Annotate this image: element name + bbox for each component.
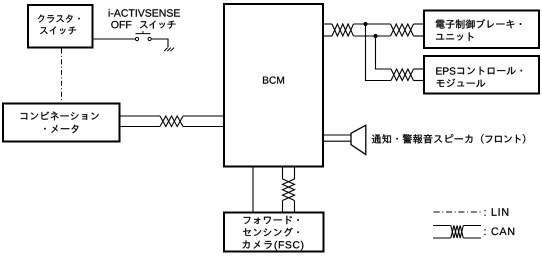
legend label: CAN	[485, 228, 515, 236]
LIN bus wire: cluster switch to combination meter (dash-dot)	[61, 49, 63, 103]
component box: コンビネーション・メータ (combination meter)	[3, 104, 120, 142]
component box: フォワード・センシング・カメラ (FSC)	[224, 213, 324, 252]
CAN bus twisted pair: junction to EPS control module	[366, 24, 424, 81]
legend label: LIN	[485, 208, 509, 215]
label: 通知・警報音スピーカ（フロント）	[372, 134, 525, 143]
switch: i-ACTIVSENSE OFF switch (normally open)	[135, 31, 151, 41]
junction node (lower CAN line)	[373, 34, 377, 38]
CAN bus twisted pair: BCM to forward sensing camera	[283, 168, 295, 212]
component box: 電子制御ブレーキ・ユニット (electric brake control unit)	[424, 11, 539, 49]
wire: BCM to forward sensing camera	[252, 168, 254, 212]
CAN bus twisted pair: junction to electric brake unit	[391, 24, 424, 36]
speaker: 通知・警報音スピーカ (horn symbol)	[351, 125, 366, 154]
component box: クラスタ・スイッチ (cluster switch)	[28, 5, 93, 48]
junction node (upper CAN line)	[363, 22, 367, 26]
wire: switch to ground	[151, 39, 168, 47]
legend symbol: CAN twisted pair	[433, 226, 481, 239]
wire pair: BCM to speaker	[324, 135, 351, 141]
legend symbol: LIN line (dash-dot)	[434, 211, 481, 213]
CAN bus twisted pair: combination meter to BCM	[121, 116, 224, 127]
ground (chassis ground)	[164, 48, 174, 52]
label: i-ACTIVSENSE OFF スイッチ	[109, 9, 180, 29]
CAN bus twisted pair: BCM to junction	[324, 24, 391, 36]
component box: EPSコントロール・モジュール (EPS control module)	[424, 56, 539, 94]
component box: BCM	[224, 4, 323, 167]
wire: cluster switch to i-ACTIVSENSE OFF switch	[94, 38, 136, 40]
